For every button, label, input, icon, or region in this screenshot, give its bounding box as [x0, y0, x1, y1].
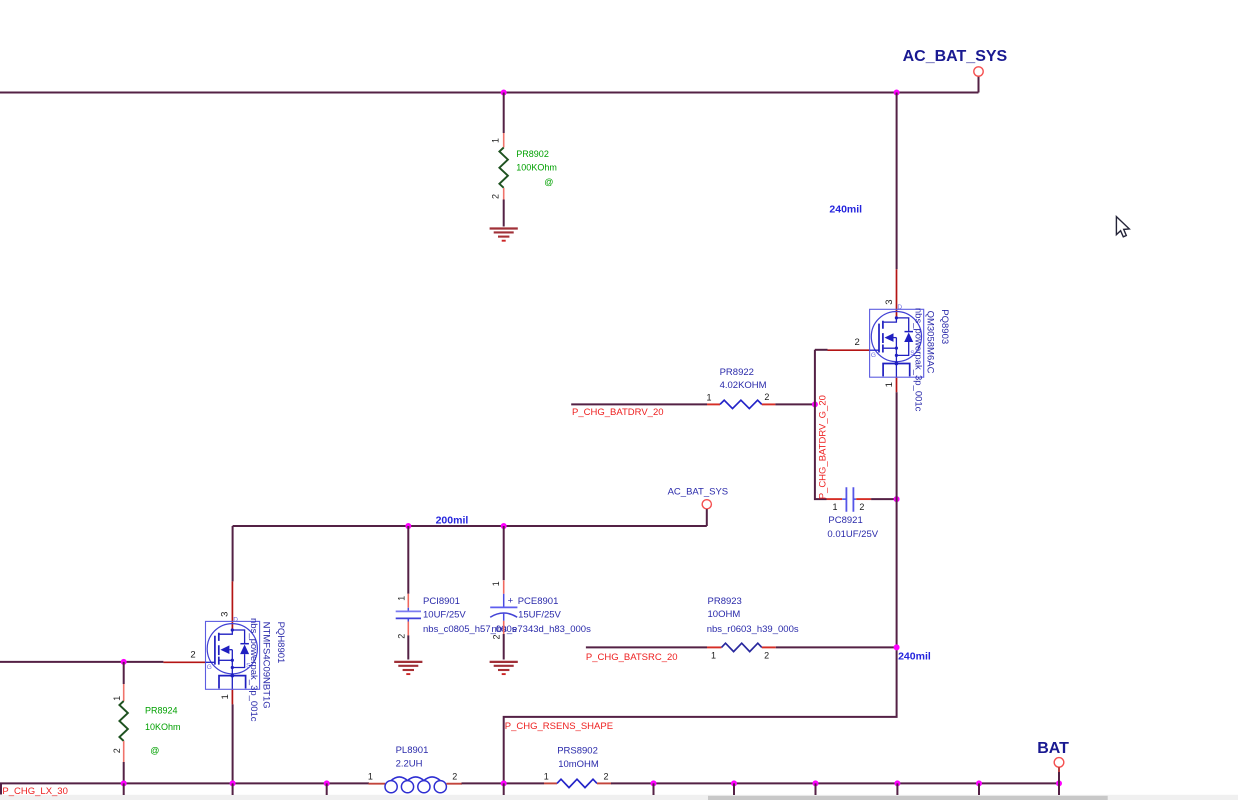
pin 2 PR8924	[123, 741, 125, 762]
transistor Q PQ8903	[828, 269, 924, 392]
wire PC8921 to PQ8903 source line	[871, 498, 897, 500]
svg-text:PQH8901: PQH8901	[275, 622, 286, 664]
svg-text:P_CHG_BATSRC_20: P_CHG_BATSRC_20	[586, 652, 678, 663]
svg-text:nbs_powerpak_3p_001c: nbs_powerpak_3p_001c	[912, 308, 923, 412]
resistor PR8922	[720, 400, 762, 408]
wire rail PL8901 to PRS8902	[462, 782, 545, 784]
capacitor PCI8901	[407, 608, 409, 622]
transistor Q PQH8901	[163, 581, 259, 704]
wire PR8924 top	[123, 662, 125, 684]
svg-text:QM3058M6AC: QM3058M6AC	[925, 311, 936, 374]
pin 2 PR8922	[762, 403, 776, 405]
svg-text:2: 2	[764, 651, 769, 661]
svg-text:PCE8901: PCE8901	[518, 596, 559, 607]
junction rail x897	[894, 780, 900, 786]
resistor PRS8902	[557, 779, 597, 787]
wire P_CHG_BATSRC_20 left	[586, 646, 707, 648]
wire P_CHG_BATDRV_20 left	[571, 403, 707, 405]
svg-text:240mil: 240mil	[898, 651, 931, 663]
junction rail x816	[813, 780, 819, 786]
wire P_CHG_BATDRV_G_20 vertical	[815, 350, 827, 499]
svg-text:2: 2	[492, 634, 502, 639]
svg-text:PR8902: PR8902	[516, 149, 549, 159]
junction rail x327	[324, 780, 330, 786]
svg-text:2: 2	[112, 748, 122, 753]
svg-text:100KOhm: 100KOhm	[516, 163, 557, 173]
resistor PR8902	[499, 148, 508, 188]
junction rail x1059	[1056, 780, 1062, 786]
junction rail x124	[121, 780, 127, 786]
svg-text:NTMFS4C09NBT1G: NTMFS4C09NBT1G	[261, 622, 272, 709]
junction top at PQ8903 drain	[894, 90, 900, 96]
junction mid at PCE8901	[501, 523, 507, 529]
wire PCE8901 bottom	[503, 634, 505, 660]
junction gate / PR8924	[121, 659, 127, 665]
svg-text:1: 1	[707, 392, 712, 402]
junction top at PR8902	[501, 90, 507, 96]
wire BAT stub	[1058, 767, 1060, 772]
wire PR8923 to junction	[776, 646, 897, 648]
scrollbar track	[0, 795, 1238, 800]
svg-text:P_CHG_LX_30: P_CHG_LX_30	[2, 786, 67, 797]
junction mid at PCI8901	[405, 523, 411, 529]
svg-text:@: @	[150, 746, 159, 756]
ground PR8902	[490, 229, 518, 241]
wire port stub AC_BAT_SYS	[978, 76, 980, 92]
wire PQ8903 source vertical + P_CHG_RSENS_SHAPE run	[504, 392, 897, 783]
capacitor PC8921	[846, 487, 853, 512]
resistor PR8923	[722, 643, 762, 651]
pin 1 PR8902	[503, 133, 505, 148]
svg-text:4.02KOHM: 4.02KOHM	[720, 380, 767, 391]
svg-text:1: 1	[491, 138, 501, 143]
wire gate net from left edge	[0, 661, 163, 663]
wire rail stubs below	[124, 783, 1059, 795]
svg-text:nbs_e7343d_h83_000s: nbs_e7343d_h83_000s	[492, 624, 592, 635]
svg-text:AC_BAT_SYS: AC_BAT_SYS	[668, 486, 729, 497]
svg-text:1: 1	[368, 771, 373, 781]
pin 2 PL8901	[446, 783, 462, 785]
wire rail PRS8902 to BAT	[611, 782, 1059, 784]
junction at source line / PC8921	[894, 496, 900, 502]
svg-text:0.01UF/25V: 0.01UF/25V	[827, 529, 878, 540]
svg-text:240mil: 240mil	[829, 204, 862, 216]
wire PCE8901 top	[503, 526, 505, 580]
port AC_BAT_SYS	[974, 67, 983, 76]
svg-text:2: 2	[604, 772, 609, 782]
svg-text:@: @	[544, 177, 553, 187]
scrollbar thumb	[708, 796, 1108, 800]
junction BATSRC / source line	[894, 644, 900, 650]
wire PQH8901 source vertical	[232, 704, 234, 783]
svg-text:P_CHG_RSENS_SHAPE: P_CHG_RSENS_SHAPE	[505, 721, 613, 732]
pin 2 PRS8902	[597, 782, 612, 784]
wire PR8922 to junction	[775, 403, 815, 405]
junction rail x233	[230, 780, 236, 786]
svg-text:1: 1	[397, 596, 407, 601]
svg-text:PR8924: PR8924	[145, 705, 178, 715]
svg-text:P_CHG_BATDRV_G_20: P_CHG_BATDRV_G_20	[818, 395, 829, 499]
svg-text:+: +	[508, 596, 514, 607]
svg-text:AC_BAT_SYS: AC_BAT_SYS	[903, 48, 1008, 65]
wire PQ8903 drain vertical	[896, 93, 898, 270]
svg-text:2: 2	[859, 502, 864, 512]
ground PCE8901	[490, 662, 518, 674]
svg-text:PQ8903: PQ8903	[939, 309, 950, 344]
svg-text:1: 1	[711, 651, 716, 661]
svg-text:1: 1	[544, 771, 549, 781]
svg-text:2.2UH: 2.2UH	[396, 758, 423, 769]
pin 2 PR8902	[503, 188, 505, 200]
svg-text:nbs_powerpak_3p_001c: nbs_powerpak_3p_001c	[248, 618, 259, 722]
svg-text:1: 1	[112, 696, 122, 701]
pin 2 PCE8901	[503, 621, 505, 634]
pin 1 PR8924	[123, 684, 125, 701]
svg-text:PCI8901: PCI8901	[423, 596, 460, 607]
wire PCI8901 bottom	[407, 635, 409, 659]
wire gate link PQ8903	[815, 349, 828, 351]
wire AC_BAT_SYS top rail	[0, 92, 979, 94]
svg-text:10OHM: 10OHM	[708, 609, 741, 620]
svg-text:PR8922: PR8922	[720, 367, 754, 378]
svg-text:PC8921: PC8921	[828, 515, 862, 526]
svg-text:PL8901: PL8901	[396, 745, 429, 756]
svg-text:P_CHG_BATDRV_20: P_CHG_BATDRV_20	[572, 407, 664, 418]
junction rail x504	[501, 780, 507, 786]
pin 1 PCI8901	[407, 594, 409, 608]
pin 2 PC8921	[856, 498, 871, 500]
junction P_CHG_BATDRV_G_20	[812, 401, 818, 407]
wire PR8902 top	[503, 93, 505, 134]
wire bottom rail P_CHG_LX_30 left	[0, 782, 369, 784]
pin 1 PC8921	[827, 498, 843, 500]
resistor PR8924	[119, 701, 128, 741]
mouse cursor	[1116, 217, 1129, 237]
inductor PL8901	[385, 777, 446, 793]
svg-text:1: 1	[833, 502, 838, 512]
svg-text:15UF/25V: 15UF/25V	[518, 609, 561, 620]
junction rail x654	[651, 780, 657, 786]
pin 2 PR8923	[762, 646, 776, 648]
pin 1 PR8922	[707, 403, 720, 405]
svg-text:10KOhm: 10KOhm	[145, 722, 181, 732]
svg-text:1: 1	[491, 581, 501, 586]
svg-text:2: 2	[452, 771, 457, 781]
ground PCI8901	[394, 662, 422, 674]
svg-text:2: 2	[491, 194, 501, 199]
junction rail x979	[976, 780, 982, 786]
wire PQH8901 drain vertical	[232, 526, 234, 581]
svg-text:10mOHM: 10mOHM	[558, 759, 599, 770]
wire PR8924 bottom	[123, 762, 125, 783]
svg-text:nbs_r0603_h39_000s: nbs_r0603_h39_000s	[707, 624, 799, 635]
svg-text:PRS8902: PRS8902	[557, 745, 598, 756]
svg-text:10UF/25V: 10UF/25V	[423, 609, 466, 620]
pin 1 PL8901	[369, 783, 386, 785]
junction rail x734	[731, 780, 737, 786]
pin 2 PCI8901	[407, 622, 409, 636]
wire mid horizontal 200mil	[233, 525, 707, 527]
capacitor PCE8901 (polarized)	[503, 594, 505, 608]
svg-text:PR8923: PR8923	[708, 596, 742, 607]
pin 1 PCE8901	[503, 580, 505, 593]
pin 1 PRS8902	[544, 782, 557, 784]
pin 1 PR8923	[707, 646, 722, 648]
wire PR8902 bottom	[503, 200, 505, 227]
svg-text:200mil: 200mil	[436, 515, 469, 527]
svg-text:2: 2	[764, 392, 769, 402]
wire AC_BAT_SYS mid stub	[706, 509, 708, 526]
svg-text:BAT: BAT	[1037, 740, 1069, 757]
svg-text:2: 2	[397, 634, 407, 639]
wire PCI8901 top	[407, 526, 409, 594]
